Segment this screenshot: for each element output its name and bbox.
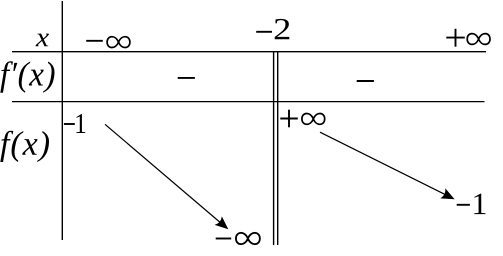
node: minus of bottom minus-infinity	[216, 238, 232, 240]
node: minus of top-left minus-infinity	[86, 40, 103, 42]
wire: left vertical table border	[61, 1, 63, 240]
node: minus sign first interval	[178, 77, 195, 79]
wire: horizontal rule under f'(x) row	[12, 101, 485, 103]
node: infinity of mid plus-infinity	[302, 113, 325, 124]
wire: double bar left line at x=-2	[273, 52, 275, 245]
node: digit 2 of -2 header	[275, 19, 290, 39]
node: digit 1 of bottom-right -1	[474, 194, 485, 215]
wire: arrow shaft decreasing first interval	[105, 124, 222, 224]
node: plus of mid plus-infinity	[280, 110, 298, 128]
wire: arrow shaft decreasing second interval	[320, 132, 450, 197]
node: arrowhead second interval	[440, 188, 457, 204]
node: arrowhead first interval	[215, 216, 232, 233]
node: row label f(x)	[0, 131, 49, 162]
node: minus sign second interval	[357, 80, 374, 82]
node: infinity of bottom minus-infinity	[236, 233, 260, 244]
wire: double bar right line at x=-2	[277, 52, 279, 245]
node: minus of -2 header	[256, 31, 272, 33]
node: minus of -1 upper-left value	[64, 123, 75, 125]
wire: horizontal rule under x row	[12, 51, 486, 53]
node: column header label x	[36, 34, 49, 47]
node: minus of bottom-right -1	[457, 204, 470, 206]
node: digit 1 of -1 upper-left value	[76, 114, 85, 133]
node: infinity of top-left minus-infinity	[107, 37, 130, 48]
node: plus of top-right plus-infinity	[446, 29, 465, 47]
node: infinity of top-right plus-infinity	[467, 34, 490, 45]
node: row label f'(x)	[0, 61, 54, 93]
